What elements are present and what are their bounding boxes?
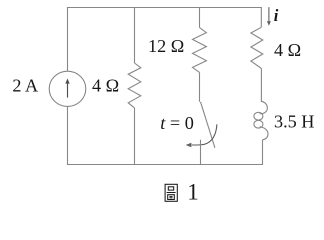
current arrow i [267,7,271,26]
wire: R1 bottom lead [134,108,136,165]
resistor R2 (12 Ω) [193,28,207,73]
label: 12 Ω [148,36,184,56]
inductor L1 (3.5 H) [254,101,268,140]
label: 4 Ω (R1) [92,76,119,96]
svg-text:4 Ω: 4 Ω [274,40,301,60]
wire: R1 top lead [134,8,136,64]
label: 3.5 H [274,111,314,131]
caption: 圖 1 [165,180,199,205]
wire: top rail [67,7,262,9]
label: 4 Ω (R3) [274,40,301,60]
svg-text:2 A: 2 A [12,76,38,96]
wire: R2 top lead [199,8,201,28]
svg-text:12 Ω: 12 Ω [148,36,184,56]
wire: left branch top [67,8,69,72]
label: 2 A [12,76,38,96]
label: t = 0 [160,113,194,133]
switch S1 motion arrow [186,124,217,147]
svg-text:3.5 H: 3.5 H [274,111,314,131]
resistor R1 (4 Ω) [128,63,141,108]
wire: left branch bottom [67,107,69,165]
svg-text:i: i [274,6,279,25]
switch S1 blade [201,102,215,148]
svg-text:t = 0: t = 0 [160,113,194,133]
wire: inductor bottom lead [262,140,264,165]
svg-text:1: 1 [187,180,199,205]
resistor R3 (4 Ω right) [251,27,263,68]
current source I1 (2 A) [49,71,86,106]
svg-text:4 Ω: 4 Ω [92,76,119,96]
wire: R2 bottom lead to switch [199,72,201,101]
label: i [274,6,279,25]
wire: bottom rail [67,164,263,166]
wire: right branch top corner [260,8,262,28]
wire: R3 to inductor lead [260,69,262,103]
wire: switch bottom lead [200,140,202,165]
